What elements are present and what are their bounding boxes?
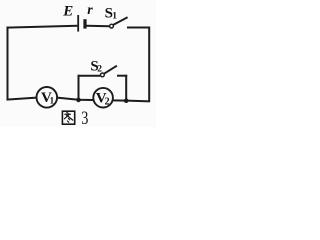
wire battery to switch S1 — [86, 25, 109, 27]
svg-text:1: 1 — [112, 11, 117, 21]
battery E long plate — [77, 15, 79, 32]
wire S2 branch left leg — [78, 75, 80, 100]
switch S1 blade — [113, 17, 127, 25]
wire top left horizontal — [7, 26, 78, 28]
svg-text:3: 3 — [81, 107, 88, 127]
svg-text:2: 2 — [97, 65, 102, 75]
battery E short plate — [83, 19, 86, 28]
svg-text:r: r — [87, 3, 93, 18]
voltmeter V2 — [93, 88, 113, 108]
wire bottom horizontal — [7, 98, 151, 102]
junction node right — [124, 98, 129, 103]
wire S2 branch top left — [78, 75, 101, 77]
wire right vertical — [148, 27, 150, 103]
junction node left — [76, 98, 81, 103]
voltmeter V1 — [37, 87, 58, 108]
caption glyph tu (figure) — [62, 111, 74, 124]
wire S2 branch top right — [117, 75, 127, 77]
svg-text:1: 1 — [50, 95, 55, 105]
wire left vertical — [7, 27, 9, 101]
switch S2 blade — [104, 66, 117, 74]
wire S1 to top right corner — [127, 27, 150, 29]
wire S2 branch right leg — [125, 75, 127, 101]
switch S1 pivot — [110, 24, 114, 28]
svg-text:2: 2 — [105, 97, 110, 108]
svg-text:E: E — [62, 4, 73, 20]
switch S2 pivot — [101, 73, 105, 77]
